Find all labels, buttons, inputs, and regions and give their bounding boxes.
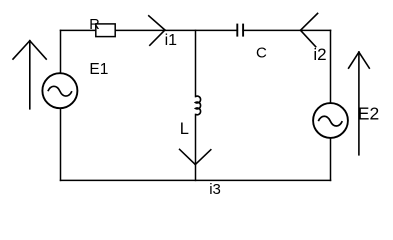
current arrow i1 bbox=[149, 16, 165, 46]
wire middle branch upper bbox=[195, 30, 197, 96]
wire right branch upper bbox=[330, 30, 332, 103]
wire left branch upper bbox=[60, 30, 62, 73]
svg-text:E2: E2 bbox=[358, 104, 379, 124]
resistor R bbox=[96, 24, 115, 37]
wire right branch lower bbox=[330, 138, 332, 181]
svg-text:i2: i2 bbox=[313, 45, 326, 64]
svg-text:E1: E1 bbox=[89, 61, 108, 78]
voltage arrow for E1 bbox=[13, 41, 46, 109]
svg-text:R: R bbox=[89, 17, 99, 33]
wire middle branch lower bbox=[195, 114, 197, 180]
source E2 sine bbox=[318, 116, 342, 126]
wire top left segment bbox=[61, 29, 96, 31]
capacitor C bbox=[237, 24, 243, 37]
wire left branch lower bbox=[60, 108, 62, 180]
source E1 sine bbox=[48, 86, 72, 96]
source E2 circle bbox=[313, 103, 348, 138]
voltage arrow for E2 bbox=[349, 52, 370, 155]
svg-text:i1: i1 bbox=[165, 32, 178, 49]
inductor L bbox=[196, 96, 201, 115]
wire bottom bbox=[61, 179, 331, 181]
source E1 circle bbox=[42, 73, 77, 108]
svg-text:i3: i3 bbox=[209, 181, 221, 198]
current arrow i2 bbox=[301, 13, 318, 46]
wire top right segment bbox=[243, 29, 330, 31]
current arrow i3 (down arrowhead on middle branch) bbox=[180, 149, 211, 164]
svg-text:C: C bbox=[256, 45, 267, 62]
svg-text:L: L bbox=[180, 120, 189, 138]
wire top middle segment bbox=[115, 29, 237, 31]
